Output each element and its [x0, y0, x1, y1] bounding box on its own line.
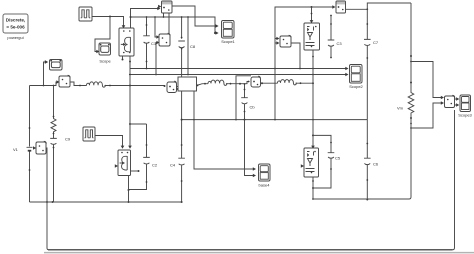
wire PG2 to MOSFET2 gate	[95, 136, 124, 149]
current measurement AM2	[33, 141, 46, 154]
capacitor C8 bus	[178, 16, 196, 120]
svg-text:Discrete,: Discrete,	[6, 18, 25, 23]
wire branch to C2	[130, 123, 147, 125]
subsystem block TR	[177, 77, 197, 91]
wire scope base4 input1	[194, 91, 256, 171]
svg-text:= 5e-006: = 5e-006	[6, 25, 25, 30]
current measurement AM1	[59, 75, 70, 87]
wire SB2 to L3	[261, 82, 278, 84]
wire VM3 out down	[291, 43, 300, 69]
svg-text:Scope: Scope	[99, 59, 111, 64]
block U1 measurement top (cell1)	[158, 1, 172, 13]
wire cell1 source chain down	[128, 56, 132, 149]
capacitor Cb	[241, 83, 255, 120]
voltage measurement VM1	[159, 33, 170, 46]
svg-text:Vm: Vm	[397, 106, 404, 111]
wire U1 out to Scope1	[172, 6, 219, 28]
wire ground drop left	[47, 202, 49, 250]
capacitor C7 on right bus	[364, 9, 379, 119]
svg-text:Cb: Cb	[250, 105, 256, 110]
wire PG1 to MOSFET1 gate	[92, 16, 125, 29]
wire netB to Scope2 input2	[129, 73, 349, 77]
wire MOSFET2 source down	[128, 176, 130, 204]
node bottom mid rail	[313, 197, 411, 199]
inductor L1	[87, 82, 106, 87]
wire main line from source	[30, 80, 60, 86]
node net17 wire	[130, 16, 219, 35]
inductor L3	[278, 80, 297, 85]
wire L2 to SB2	[226, 81, 250, 85]
svg-text:V1: V1	[13, 147, 19, 152]
svg-text:powergui: powergui	[7, 35, 23, 40]
wire AM1 out jog	[70, 82, 87, 86]
pulse generator PG2	[83, 127, 95, 141]
capacitor C2	[128, 124, 158, 191]
scope Scope3	[458, 95, 472, 118]
svg-text:C8: C8	[190, 44, 196, 49]
capacitor C5	[312, 142, 341, 189]
MOSFET Q3	[304, 23, 320, 50]
diode block SB2	[251, 76, 261, 87]
svg-text:base4: base4	[259, 183, 271, 188]
MOSFET Q2	[115, 150, 131, 176]
resistor R2 chain	[50, 86, 71, 204]
wire MOSFET3 drain	[310, 7, 314, 23]
pulse generator PG1	[79, 7, 92, 21]
wire scope base4 input2	[245, 120, 257, 178]
svg-text:C6: C6	[373, 162, 379, 167]
wire L3 to switch node	[296, 82, 315, 84]
wire L1 to SB1	[105, 85, 166, 88]
wire VM1 input2 riser	[155, 41, 159, 76]
dc voltage source V1	[13, 86, 33, 203]
scope block small (source)	[50, 60, 63, 71]
svg-text:C2: C2	[152, 163, 158, 168]
wire ground bus right riser	[453, 110, 455, 250]
capacitor C1	[143, 16, 157, 68]
node ground bus	[48, 249, 453, 251]
wire AM2 out down to ground bus	[46, 148, 48, 203]
capacitor C3	[328, 15, 343, 59]
MOSFET Q1	[119, 28, 134, 56]
wire SB2 loop riser	[235, 76, 251, 121]
svg-text:Scope2: Scope2	[349, 84, 363, 89]
svg-text:C9: C9	[65, 137, 71, 142]
wire U1 stubs	[163, 13, 169, 34]
wire load top to VM4	[411, 62, 444, 100]
node bottom rail	[30, 201, 182, 203]
scope Scope2	[349, 65, 363, 90]
resistor Vm load	[397, 91, 414, 197]
block U3 measurement top right	[336, 1, 346, 13]
wire C5 branch	[313, 135, 331, 142]
node mid bus	[181, 119, 368, 121]
wire U3 out to load bus	[346, 3, 412, 10]
MOSFET Q4	[301, 148, 319, 177]
wire MOSFET4 source down	[312, 177, 314, 200]
voltage measurement VM3	[275, 35, 291, 47]
wire MOSFET1 m stub	[122, 56, 124, 61]
diode block SB1	[167, 81, 177, 92]
svg-text:Scope1: Scope1	[221, 39, 235, 44]
voltage measurement VM4	[445, 95, 455, 107]
inductor L2	[208, 80, 227, 85]
svg-text:C4: C4	[170, 163, 176, 168]
powergui block	[3, 14, 28, 40]
wire MOSFET1 drain up	[131, 7, 161, 28]
wire netA to Scope2 input1	[129, 61, 349, 71]
capacitor C4 lower on same bus	[170, 120, 185, 203]
wire TR to L2	[197, 83, 209, 87]
wire to scope (cell1 input)	[44, 60, 49, 85]
svg-text:C5: C5	[335, 156, 341, 161]
wire riser netB to net17	[187, 16, 189, 74]
svg-text:Scope3: Scope3	[458, 113, 472, 118]
wire VM1 input1	[154, 16, 159, 39]
scope Scope (cell1)	[99, 43, 111, 64]
wire switch node chain M3 source to M4 drain	[311, 50, 315, 149]
wire VM4 to Scope3	[455, 97, 460, 107]
scope base4	[259, 164, 271, 188]
wire load bottom to VM4	[411, 101, 444, 128]
border bottom edge	[44, 252, 474, 254]
scope Scope1	[221, 21, 235, 45]
wire MOSFET2 m stub	[131, 170, 140, 172]
svg-text:C7: C7	[373, 40, 379, 45]
node load bus	[410, 3, 412, 91]
capacitor C6 lower right bus	[364, 120, 379, 201]
wire top net y7	[275, 5, 336, 119]
wire junction to Scope	[95, 17, 110, 54]
svg-text:C3: C3	[337, 41, 343, 46]
